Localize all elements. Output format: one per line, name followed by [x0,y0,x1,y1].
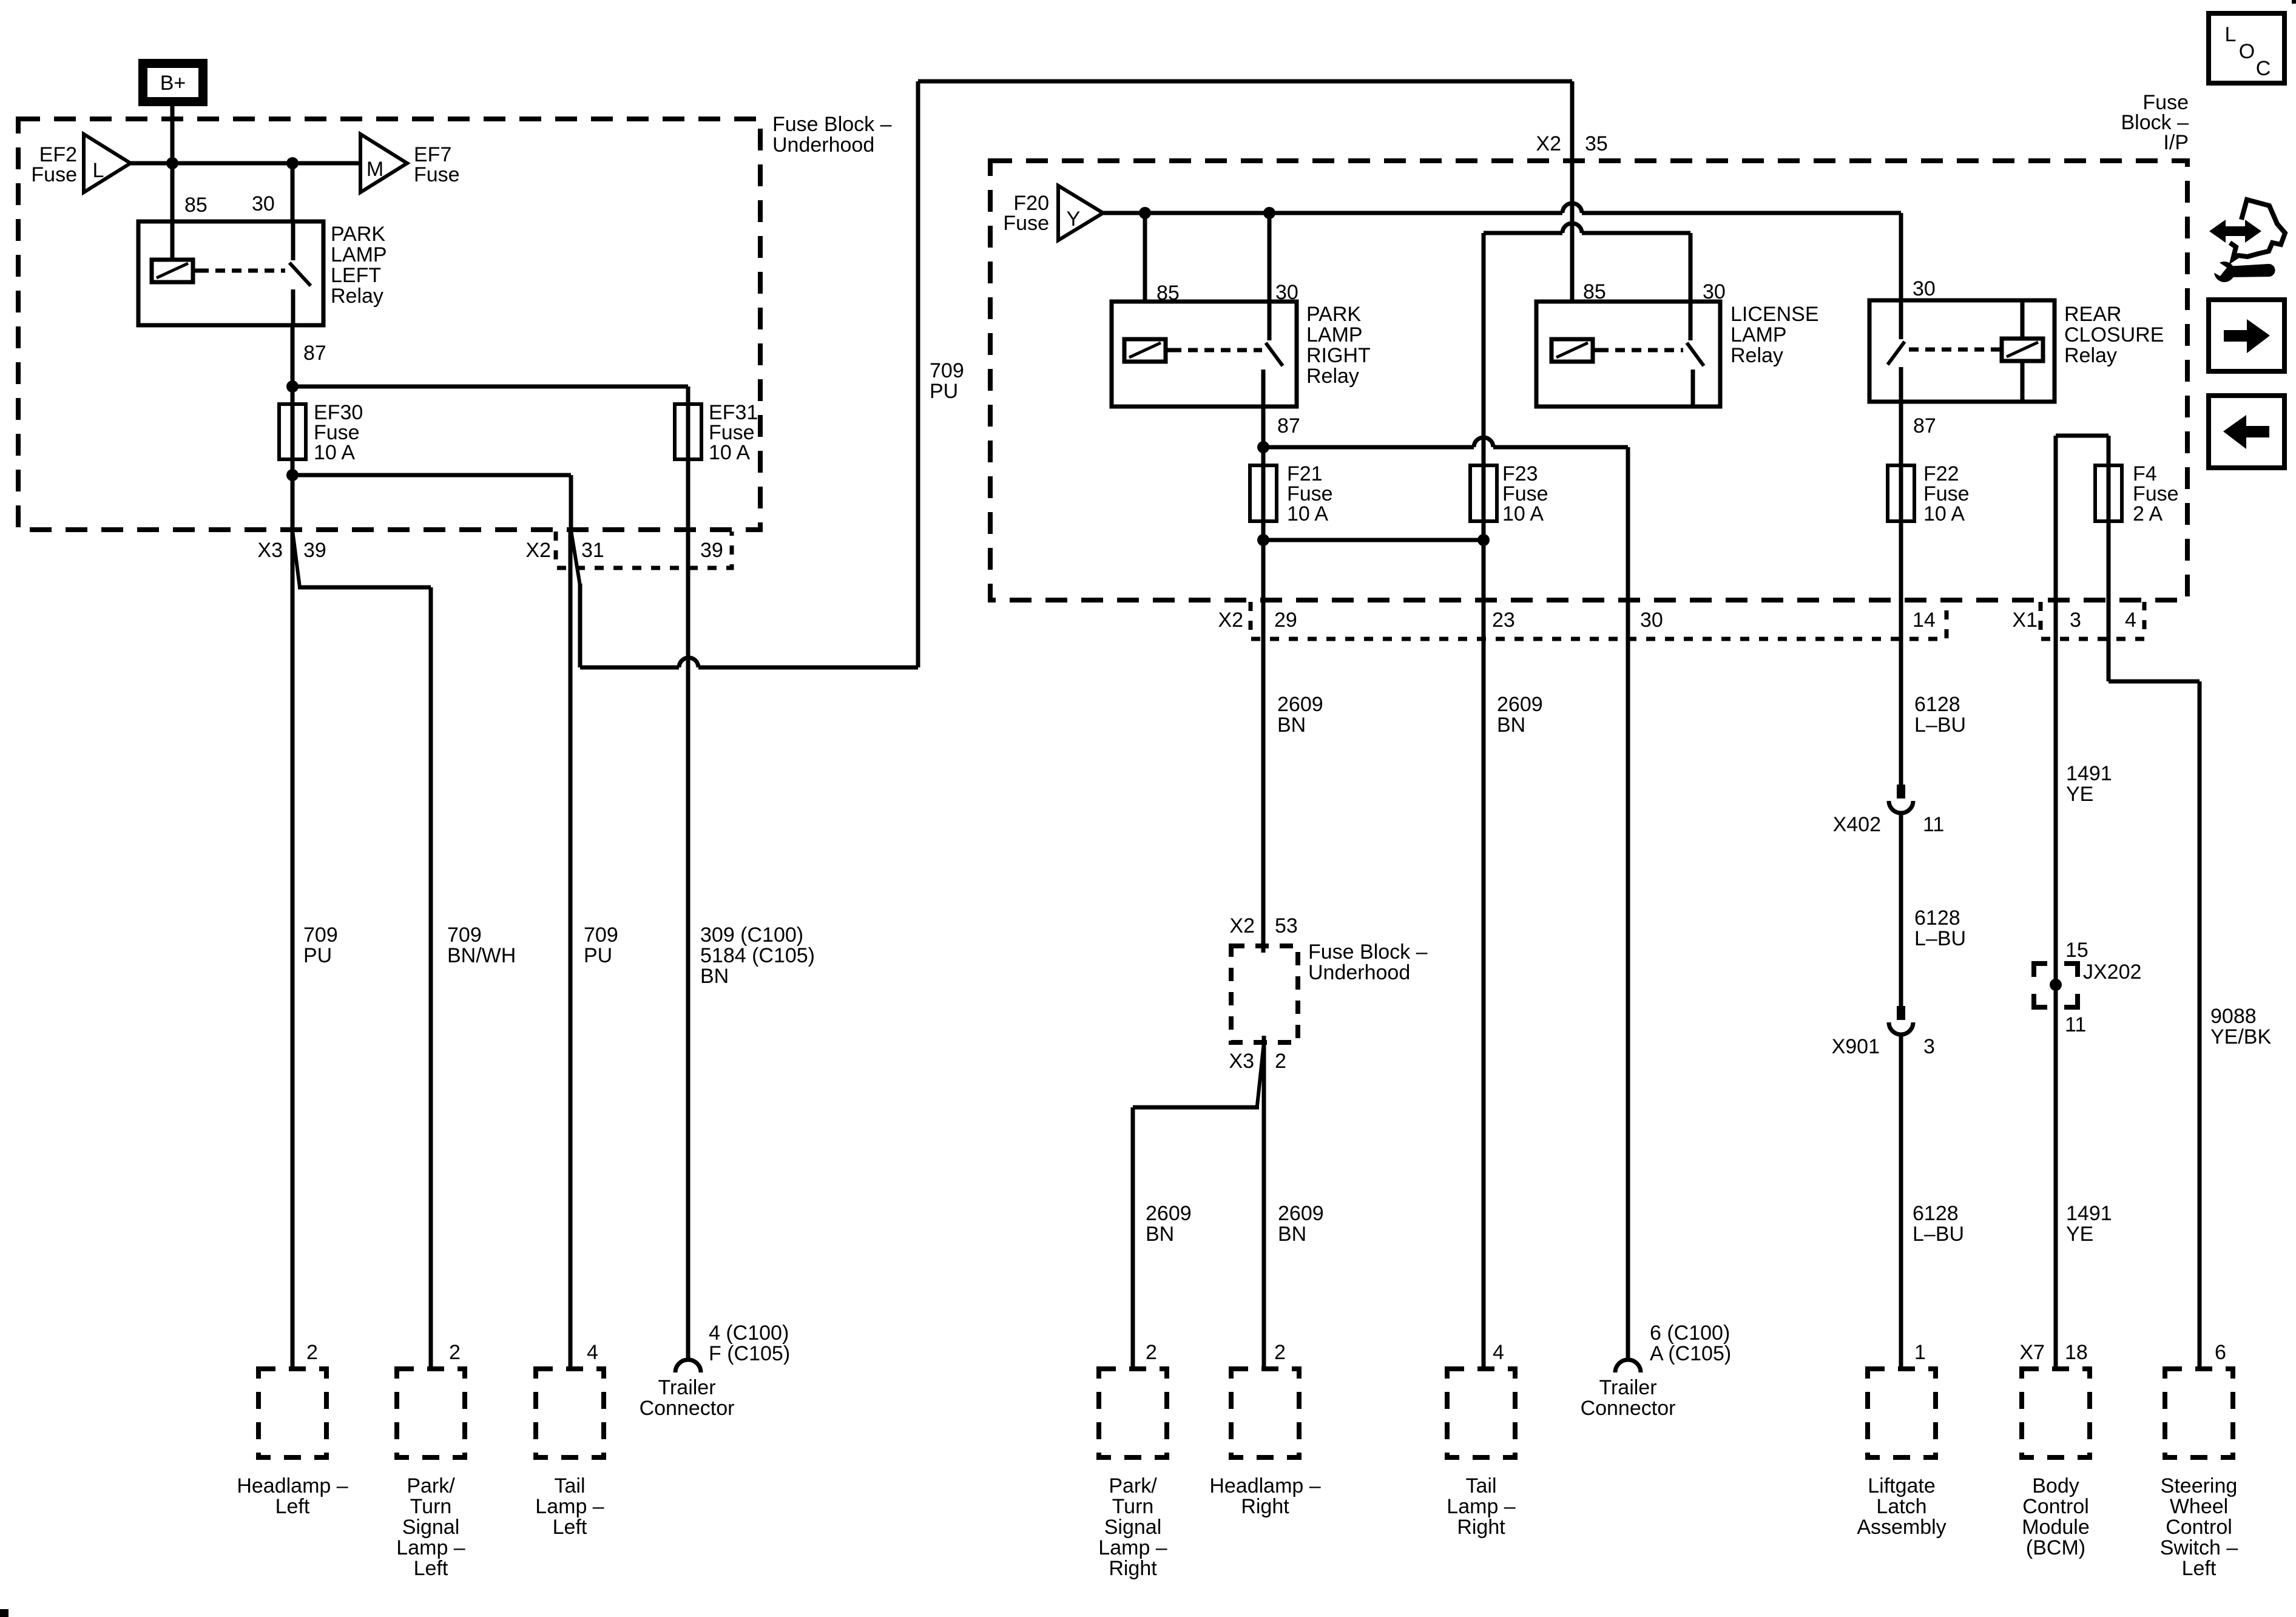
wire relay 87 down [291,325,295,389]
wire X2-35 down to license relay [1570,211,1575,302]
svg-text:X3: X3 [257,539,283,562]
svg-text:Body: Body [2032,1474,2079,1497]
node junction 30 wire [286,157,299,169]
wire 6128 L-BU middle [1899,813,1903,1006]
svg-text:Fuse Block –: Fuse Block – [1308,940,1428,964]
wire F4 jumper [2056,436,2109,600]
svg-text:Turn: Turn [1112,1495,1154,1518]
connector X1 dotted box [2041,602,2144,639]
body control module label [2022,1474,2090,1559]
svg-text:2: 2 [1275,1050,1286,1073]
svg-text:4: 4 [587,1341,598,1364]
svg-text:Tail: Tail [554,1474,585,1497]
trailer connector right label [1581,1376,1676,1420]
svg-text:15: 15 [2065,939,2088,962]
svg-text:L: L [2225,23,2237,46]
svg-text:6 (C100): 6 (C100) [1650,1322,1730,1345]
node junction F21 out [1257,534,1269,546]
svg-text:309 (C100): 309 (C100) [700,923,803,947]
svg-text:2: 2 [1146,1341,1157,1364]
trailer connector left pin labels [709,1322,790,1365]
pin label 85 park right [1156,282,1180,305]
relay park lamp right dashed link [1172,348,1262,353]
svg-text:11: 11 [1923,813,1944,836]
svg-text:X2: X2 [1536,132,1561,155]
svg-text:10 A: 10 A [709,441,750,464]
svg-text:2609: 2609 [1497,693,1543,716]
fuse block I/P label [2121,91,2189,154]
svg-text:39: 39 [700,539,723,562]
wire license 30 to F23 [1484,223,1690,465]
wire 1491 YE [2054,600,2058,1369]
page corner mark top right [2292,0,2296,4]
tail lamp left box [536,1369,604,1457]
fuse block I/P dashed border [990,161,2187,600]
svg-text:JX202: JX202 [2083,960,2141,984]
svg-text:Headlamp –: Headlamp – [1209,1474,1320,1497]
park turn signal lamp left label [396,1474,465,1580]
connector label X2 31 39 [525,539,723,562]
node junction park right 87 [1257,441,1269,453]
relay park lamp left label [331,223,387,308]
svg-text:Trailer: Trailer [658,1376,715,1399]
svg-text:Switch –: Switch – [2160,1536,2238,1559]
svg-text:53: 53 [1275,914,1298,937]
svg-text:4: 4 [2125,609,2136,632]
svg-text:30: 30 [1913,277,1936,300]
wire F20 feed [1101,203,1901,300]
wire label 1491 YE lower [2066,1202,2112,1246]
relay rear closure dashed link [1909,348,1996,352]
park turn signal lamp right label [1098,1474,1167,1580]
relay park lamp right label [1306,303,1371,388]
svg-text:M: M [366,158,383,181]
headlamp left label [237,1474,348,1518]
svg-text:29: 29 [1274,609,1297,632]
node junction F23 out [1477,534,1490,546]
svg-text:LEFT: LEFT [331,264,381,287]
relay park lamp left dashed link [199,269,285,273]
wire label 709 PU tail left [584,923,618,967]
wire 87 to EF31 [292,387,688,404]
fuse block underhood label [772,113,892,157]
wire EF30 out to X2-31 [292,475,571,530]
svg-text:BN: BN [1278,1223,1306,1246]
svg-text:RIGHT: RIGHT [1306,344,1371,367]
connector labels X1 row [2012,609,2136,632]
pin label 2 park turn left [449,1341,461,1364]
svg-text:6128: 6128 [1914,906,1960,930]
svg-text:YE/BK: YE/BK [2210,1025,2271,1048]
liftgate latch assembly box [1868,1369,1936,1457]
svg-text:10 A: 10 A [314,441,355,464]
pin label 4 tail lamp right [1493,1341,1504,1364]
relay license lamp box [1536,302,1720,407]
connector X402 inline [1889,785,1913,813]
wire EF2 to EF7 [130,161,360,166]
pin label 30 license [1703,280,1726,303]
svg-text:Turn: Turn [410,1495,452,1518]
relay rear closure coil [1996,339,2043,361]
svg-text:85: 85 [184,194,208,217]
node junction F20 85 [1139,207,1151,219]
wire F21 F23 tie [1263,538,1484,542]
wire 2609 BN F21 [1261,540,1266,951]
svg-text:Park/: Park/ [1109,1474,1157,1497]
wire label 6128 L-BU middle [1914,906,1966,950]
svg-text:2609: 2609 [1278,1202,1324,1225]
svg-text:L–BU: L–BU [1914,927,1966,950]
connector label X3 39 [257,539,326,562]
wire branch park turn right [1133,1042,1264,1369]
relay rear closure label [2064,303,2164,367]
pin label 2 headlamp right [1274,1341,1286,1364]
LOC locator box [2209,13,2284,83]
svg-text:Park/: Park/ [407,1474,455,1497]
tail lamp right label [1447,1474,1515,1539]
svg-text:6128: 6128 [1914,693,1960,716]
fuse EF30 [279,387,306,478]
svg-text:1: 1 [1914,1341,1926,1364]
fuse EF31 label [709,401,758,464]
wire 9088 YE/BK [2109,521,2200,1369]
svg-text:Control: Control [2166,1516,2232,1539]
svg-text:LAMP: LAMP [1730,323,1787,346]
svg-text:YE: YE [2066,1223,2093,1246]
svg-text:X2: X2 [1229,914,1255,937]
svg-text:10 A: 10 A [1287,502,1328,525]
relay license lamp switch [1687,302,1704,407]
connector X2 31 39 dotted box [556,532,732,568]
svg-text:LAMP: LAMP [1306,323,1363,346]
svg-text:87: 87 [1277,414,1300,437]
svg-text:X3: X3 [1229,1050,1254,1073]
wire 6128 L-BU lower [1899,1035,1903,1369]
svg-text:LAMP: LAMP [331,243,387,266]
pin label 85 park lamp left [184,194,208,217]
fuse block underhood inline label [1308,940,1428,984]
svg-text:BN: BN [1146,1223,1174,1246]
pin label 87 park lamp left [303,342,326,365]
node junction B+ wire [166,157,178,169]
connector X901 labels [1832,1035,1935,1058]
svg-text:A (C105): A (C105) [1650,1342,1731,1365]
wire park right 85 [1143,213,1147,302]
svg-text:Lamp –: Lamp – [1098,1536,1167,1559]
wire label 9088 YE/BK [2210,1005,2271,1048]
svg-text:Connector: Connector [1581,1397,1676,1420]
relay park lamp right switch [1263,302,1283,407]
svg-text:35: 35 [1585,132,1608,155]
svg-text:Connector: Connector [640,1397,735,1420]
fuse EF7 label [414,143,460,186]
wire park right 87 down [1261,407,1266,468]
pin label 87 rear closure [1913,414,1936,437]
svg-text:2: 2 [1274,1341,1286,1364]
fuse EF2 label [31,143,77,186]
svg-text:Trailer: Trailer [1599,1376,1656,1399]
svg-text:Fuse Block –: Fuse Block – [772,113,892,136]
svg-text:BN/WH: BN/WH [447,944,516,967]
svg-text:Tail: Tail [1465,1474,1496,1497]
svg-text:B+: B+ [160,72,186,95]
fuse EF31 [675,387,701,461]
relay park lamp right box [1112,302,1297,407]
svg-text:1491: 1491 [2066,1202,2112,1225]
wire rear closure 87 down [1899,402,1903,468]
svg-text:5184 (C105): 5184 (C105) [700,944,815,967]
svg-text:3: 3 [2070,609,2081,632]
svg-text:Assembly: Assembly [1857,1516,1946,1539]
liftgate latch assembly label [1857,1474,1946,1539]
wire X2-31 to fuse block IP [571,81,1572,667]
svg-text:L: L [93,159,104,182]
svg-text:PARK: PARK [1306,303,1361,326]
park turn signal lamp right box [1099,1369,1167,1457]
svg-text:I/P: I/P [2163,131,2189,154]
pin label 85 license [1583,280,1606,303]
svg-text:39: 39 [303,539,326,562]
headlamp right label [1209,1474,1320,1518]
connector X402 labels [1833,813,1945,836]
relay park lamp left coil [152,260,199,282]
svg-text:10 A: 10 A [1502,502,1544,525]
svg-text:709: 709 [584,923,618,947]
B+ power feed symbol [138,59,208,106]
wire 2609 BN F23 tail right [1482,540,1486,1369]
node junction 87 [286,380,299,393]
node junction F20 30 [1263,207,1275,219]
relay park lamp left box [138,221,323,325]
connector label X2 35 [1536,132,1607,155]
svg-text:X1: X1 [2012,609,2038,632]
svg-text:PU: PU [303,944,332,967]
svg-text:YE: YE [2066,783,2093,806]
svg-text:2609: 2609 [1277,693,1323,716]
svg-text:11: 11 [2065,1013,2086,1036]
svg-text:X901: X901 [1832,1035,1880,1058]
svg-text:Left: Left [414,1557,448,1580]
connector label X3 2 [1229,1050,1286,1073]
svg-text:709: 709 [930,359,964,382]
svg-text:BN: BN [1497,714,1525,737]
svg-text:PU: PU [930,380,958,403]
svg-text:Relay: Relay [1306,365,1359,388]
wire tail lamp left 709 PU [569,530,573,1369]
svg-text:LICENSE: LICENSE [1730,303,1819,326]
fuse F21 label [1287,462,1333,525]
wire label 309 5184 BN [700,923,815,988]
wire label 709 PU to IP [930,359,964,403]
pin label 2 headlamp left [306,1341,318,1364]
svg-text:Signal: Signal [402,1516,460,1539]
steering wheel control switch label [2160,1474,2238,1580]
fuse block underhood dashed border [18,119,760,530]
splice JX202 corners [2034,964,2078,1007]
relay license lamp dashed link [1599,348,1683,353]
pin label 2 park turn right [1146,1341,1157,1364]
fuse EF30 label [314,401,363,464]
svg-text:Right: Right [1241,1495,1289,1518]
svg-text:Fuse: Fuse [414,163,460,186]
wire headlamp left 709 PU [291,475,295,1369]
fuse F22 [1888,402,1914,523]
fuse F21 [1250,407,1277,542]
pin label 1 liftgate [1914,1341,1926,1364]
svg-text:87: 87 [1913,414,1936,437]
svg-text:X2: X2 [1218,609,1243,632]
wire trailer left 309 BN [686,459,690,1359]
svg-text:C: C [2256,57,2271,80]
svg-text:Headlamp –: Headlamp – [237,1474,348,1497]
wire label 2609 BN F21 [1277,693,1323,737]
svg-text:Control: Control [2022,1495,2089,1518]
wire label 2609 BN headlamp right [1278,1202,1324,1246]
svg-text:2 A: 2 A [2133,502,2163,525]
right arrow icon box [2209,300,2284,371]
wire label 6128 L-BU upper [1914,693,1966,737]
svg-text:709: 709 [303,923,338,947]
wire label 709 BN/WH [447,923,516,967]
connector labels X2 row [1218,609,1935,632]
svg-text:Liftgate: Liftgate [1868,1474,1936,1497]
svg-text:Left: Left [553,1516,587,1539]
fuse F4 label [2133,462,2179,525]
svg-text:Latch: Latch [1876,1495,1926,1518]
pin label 87 park right [1277,414,1300,437]
svg-text:Right: Right [1109,1557,1157,1580]
svg-text:BN: BN [1277,714,1306,737]
svg-text:CLOSURE: CLOSURE [2064,323,2164,346]
headlamp left box [258,1369,326,1457]
svg-text:Lamp –: Lamp – [396,1536,465,1559]
page corner mark bottom left [0,1609,8,1617]
fuse F20 triangle [1058,186,1103,240]
park turn signal lamp left box [397,1369,465,1457]
svg-text:L–BU: L–BU [1913,1223,1964,1246]
svg-text:4 (C100): 4 (C100) [709,1322,789,1345]
svg-text:Lamp –: Lamp – [1447,1495,1515,1518]
svg-text:Lamp –: Lamp – [535,1495,604,1518]
svg-text:10 A: 10 A [1923,502,1965,525]
fuse F4 [2095,436,2122,523]
svg-text:2609: 2609 [1146,1202,1192,1225]
svg-text:4: 4 [1493,1341,1504,1364]
svg-text:(BCM): (BCM) [2026,1536,2085,1559]
wire park right 30 [1268,213,1272,302]
svg-text:Relay: Relay [331,285,383,308]
tail lamp right box [1447,1369,1515,1457]
trailer connector left symbol [675,1360,701,1372]
relay park lamp right coil [1124,339,1172,362]
svg-text:X402: X402 [1833,813,1881,836]
relay license lamp coil [1551,339,1599,362]
svg-text:Module: Module [2022,1516,2090,1539]
svg-text:2: 2 [449,1341,461,1364]
wire label 2609 BN park turn right [1146,1202,1192,1246]
svg-text:6128: 6128 [1913,1202,1959,1225]
wire headlamp right 2609 BN [1263,946,1264,1369]
svg-text:Left: Left [2182,1557,2217,1580]
pin label 30 park right [1275,281,1298,304]
fuse F23 [1470,233,1497,542]
wire branch to park turn left [292,530,431,1369]
svg-text:PU: PU [584,944,612,967]
relay license lamp label [1730,303,1819,367]
svg-text:Signal: Signal [1104,1516,1162,1539]
svg-text:23: 23 [1492,609,1515,632]
svg-text:Left: Left [275,1495,310,1518]
svg-text:Wheel: Wheel [2170,1495,2228,1518]
fuse F20 label [1003,192,1049,235]
svg-text:30: 30 [1640,609,1663,632]
connector X901 inline [1889,1006,1913,1035]
tail lamp left label [535,1474,604,1539]
svg-text:Relay: Relay [1730,344,1783,367]
relay rear closure box [1869,300,2055,402]
wire label 709 PU headlamp left [303,923,338,967]
svg-text:30: 30 [252,192,275,215]
wire label 1491 YE upper [2066,762,2112,806]
svg-text:Steering: Steering [2161,1474,2238,1497]
svg-text:18: 18 [2065,1341,2088,1364]
wire B+ to relay coil [171,106,175,261]
svg-text:709: 709 [447,923,482,947]
relay park lamp left switch [289,221,311,325]
fuse block underhood inline box [1231,946,1298,1042]
fuse EF7 triangle [360,134,407,192]
svg-text:Underhood: Underhood [772,133,874,157]
wire label 2609 BN F23 [1497,693,1543,737]
connector label X2 53 [1229,914,1297,937]
fuse F23 label [1502,462,1548,525]
svg-text:87: 87 [303,342,326,365]
node junction below EF30 [286,469,299,481]
steering wheel control switch box [2165,1369,2233,1457]
wire label 6128 L-BU lower [1913,1202,1964,1246]
svg-text:6: 6 [2215,1341,2226,1364]
svg-text:1491: 1491 [2066,762,2112,785]
fuse EF2 triangle [84,134,130,192]
svg-text:BN: BN [700,965,729,988]
svg-text:REAR: REAR [2064,303,2121,326]
relay rear closure switch [1888,300,1905,402]
hand wrench icon [2208,200,2285,282]
svg-text:X2: X2 [525,539,551,562]
svg-text:X7: X7 [2019,1341,2045,1364]
svg-text:Relay: Relay [2064,344,2117,367]
trailer connector left label [640,1376,735,1420]
body control module box [2022,1369,2090,1457]
left arrow icon box [2209,396,2284,468]
wire to relay 30 terminal [291,163,295,221]
pin label 30 rear closure [1913,277,1936,300]
svg-text:14: 14 [1913,609,1936,632]
trailer connector right pin labels [1650,1322,1731,1365]
svg-text:Fuse: Fuse [31,163,77,186]
svg-text:2: 2 [306,1341,318,1364]
wire 6128 L-BU upper [1899,521,1903,785]
wire rear closure coil stubs [2021,300,2025,402]
svg-text:Underhood: Underhood [1308,961,1410,984]
svg-text:Y: Y [1067,208,1081,231]
svg-text:3: 3 [1923,1035,1935,1058]
svg-text:PARK: PARK [331,223,385,246]
connector X2 dotted box [1251,602,1947,639]
pin label 30 park lamp left [252,192,275,215]
wire 87 to X2-30 [1263,437,1628,1359]
svg-text:Fuse: Fuse [1003,212,1049,235]
